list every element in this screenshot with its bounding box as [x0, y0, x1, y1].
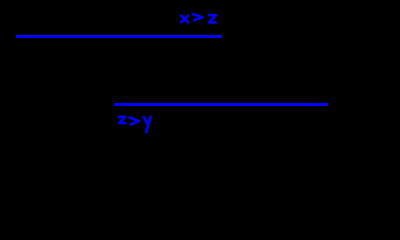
label z>y : letter y: [144, 117, 151, 132]
interval segment for z>y: [114, 103, 328, 106]
label x>z : letter z: [209, 15, 216, 22]
label z>y : greater-than: [130, 118, 139, 125]
label z>y : letter z: [120, 117, 126, 123]
label x>z : greater-than: [193, 14, 202, 20]
interval segment for x>z: [16, 35, 222, 38]
label x>z : letter x: [181, 16, 188, 23]
